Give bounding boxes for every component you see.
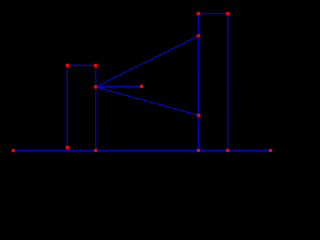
node I (12, 149, 15, 152)
node N (269, 149, 272, 152)
wire C-H (diagonal edge down-right) (96, 87, 199, 115)
node B (94, 64, 97, 67)
node E (197, 12, 200, 15)
wire A-J (left vertical edge) (66, 65, 68, 147)
node G (197, 34, 200, 37)
node D (140, 85, 143, 88)
node C (94, 85, 97, 88)
wire B-C-K (vertical edge through node C) (95, 65, 97, 150)
wire F-M (right vertical edge) (227, 14, 229, 151)
wire E-F (top-right horizontal edge) (198, 13, 228, 15)
node K (94, 149, 97, 152)
node H (197, 114, 200, 117)
node L (197, 149, 200, 152)
node A (66, 64, 69, 67)
wire E-G-H-L (long vertical edge through nodes G and H) (197, 14, 199, 151)
node M (226, 149, 229, 152)
wire C-D (short horizontal edge) (96, 85, 142, 88)
node J (66, 146, 69, 149)
wire I-K-L-M-N (bottom horizontal edge) (13, 150, 270, 152)
wire A-B (top-left horizontal edge) (67, 64, 95, 66)
node F (226, 12, 229, 15)
wire C-G (diagonal edge up-right) (96, 36, 199, 87)
